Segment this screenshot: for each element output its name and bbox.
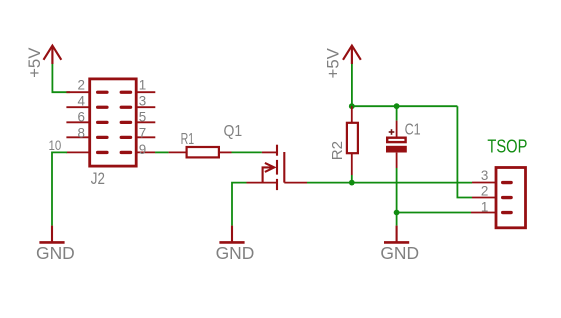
junction node rail/C1 — [394, 103, 400, 109]
svg-text:R2: R2 — [330, 141, 346, 160]
capacitor C1 top lead — [396, 106, 398, 136]
svg-text:8: 8 — [77, 126, 84, 141]
junction node rail/R2 — [349, 103, 355, 109]
ground GND1 — [39, 226, 64, 243]
svg-text:Q1: Q1 — [224, 123, 243, 140]
transistor Q1 channel (dashed) — [276, 145, 278, 190]
capacitor C1 top plate — [387, 138, 405, 142]
transistor Q1 drain pin — [262, 151, 277, 153]
svg-text:1: 1 — [139, 78, 146, 93]
svg-text:TSOP: TSOP — [487, 136, 527, 157]
connector J2 body — [90, 79, 137, 166]
wire rail to TSOP pin 2 — [457, 106, 472, 197]
svg-text:+5V: +5V — [25, 48, 44, 78]
wire +5V to J2 pin 2 — [52, 64, 70, 92]
J2 pin stubs left (pins 2,4,6,8,10) — [66, 92, 89, 152]
wire Q1 source to GND2 — [232, 183, 247, 226]
svg-text:+5V: +5V — [323, 48, 342, 78]
wire Q1 gate to R2 / TSOP pin 3 — [307, 182, 472, 184]
wire R1 to Q1 drain — [232, 151, 262, 153]
svg-text:GND: GND — [216, 243, 255, 263]
transistor Q1 gate pin — [284, 182, 307, 184]
wire J2 pin 10 to GND1 — [52, 152, 67, 225]
svg-text:C1: C1 — [405, 121, 421, 138]
transistor Q1 source pin — [247, 182, 278, 184]
TSOP pin contact bars — [501, 181, 513, 214]
resistor R1 — [169, 147, 232, 157]
svg-text:2: 2 — [77, 78, 84, 93]
ground GND2 — [219, 226, 244, 243]
svg-text:2: 2 — [481, 184, 488, 199]
supply +5V P1 — [44, 46, 62, 64]
svg-text:GND: GND — [380, 243, 419, 263]
svg-text:5: 5 — [139, 110, 146, 125]
svg-text:R1: R1 — [181, 131, 195, 148]
wire J2 pin 9 to R1 — [155, 151, 169, 153]
svg-text:4: 4 — [77, 94, 85, 109]
capacitor C1 plus sign — [389, 129, 395, 135]
wire C1 to GND node — [396, 168, 398, 213]
wire +5V P2 down to rail — [351, 64, 353, 106]
transistor Q1 body arrow — [263, 163, 275, 183]
wire junction to TSOP pin 1 — [397, 212, 471, 214]
junction node R2/output — [349, 180, 355, 186]
svg-text:9: 9 — [139, 142, 146, 157]
connector TSOP body — [496, 168, 526, 228]
TSOP pin numbers — [481, 168, 488, 214]
svg-text:GND: GND — [36, 243, 75, 263]
svg-text:7: 7 — [139, 126, 146, 141]
J2 pin numbers left — [49, 78, 86, 153]
ground GND3 — [384, 226, 409, 243]
J2 pin numbers right — [139, 78, 146, 158]
svg-text:1: 1 — [481, 199, 488, 214]
TSOP pin stubs — [471, 183, 496, 213]
svg-text:J2: J2 — [91, 169, 105, 188]
svg-text:10: 10 — [49, 138, 62, 153]
supply +5V P2 — [343, 46, 361, 64]
svg-text:3: 3 — [139, 94, 146, 109]
svg-text:6: 6 — [77, 110, 84, 125]
resistor R2 — [347, 106, 358, 175]
wire junction to GND3 — [396, 213, 398, 226]
J2 pin stubs right (pins 1,3,5,7,9) — [136, 92, 155, 152]
svg-text:3: 3 — [481, 168, 488, 183]
capacitor C1 bottom plate — [386, 146, 407, 153]
junction node C1/GND/TSOP pin1 — [394, 210, 400, 216]
wire +5V rail — [352, 105, 458, 107]
wire R2 to output net — [351, 175, 353, 183]
transistor Q1 gate line — [283, 152, 285, 183]
capacitor C1 bottom lead — [396, 153, 398, 168]
J2 pin contact bars — [96, 91, 132, 155]
